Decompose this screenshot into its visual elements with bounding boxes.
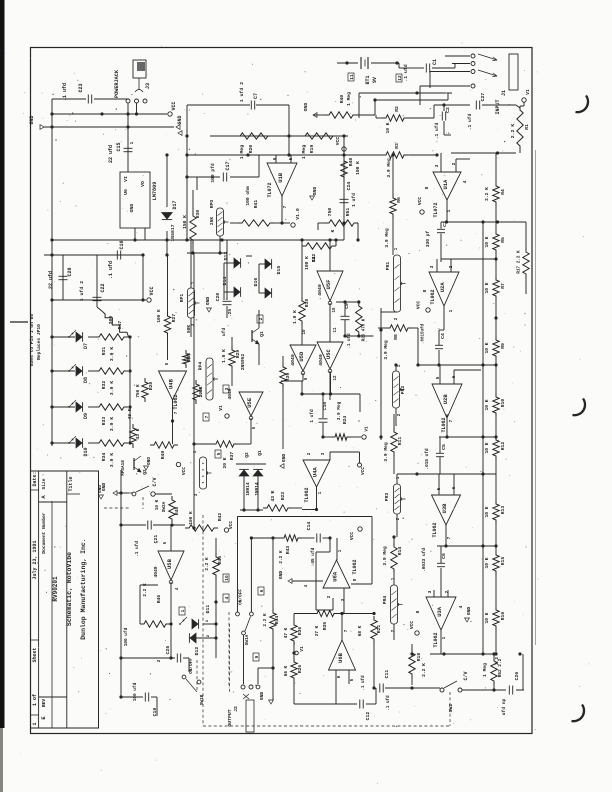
svg-text:U4A: U4A — [312, 467, 319, 478]
svg-text:C26: C26 — [67, 267, 73, 276]
svg-text:MPSA18: MPSA18 — [121, 460, 126, 476]
svg-text:C5: C5 — [441, 444, 447, 450]
svg-text:VCC: VCC — [416, 301, 422, 310]
svg-text:14: 14 — [313, 256, 317, 262]
svg-text:.1 ufd: .1 ufd — [108, 261, 114, 279]
svg-text:Q1: Q1 — [259, 331, 265, 337]
svg-text:C14: C14 — [306, 522, 312, 531]
svg-text:GND: GND — [281, 454, 287, 463]
svg-text:3: 3 — [427, 590, 433, 593]
svg-text:C2: C2 — [445, 107, 451, 113]
svg-text:8: 8 — [422, 289, 428, 292]
svg-text:SW1A: SW1A — [245, 634, 250, 645]
svg-text:Title: Title — [68, 476, 74, 491]
svg-text:R10: R10 — [500, 399, 506, 408]
svg-text:SW2A: SW2A — [162, 501, 167, 512]
svg-text:10: 10 — [224, 575, 230, 581]
svg-text:.1 ufd: .1 ufd — [347, 333, 352, 349]
svg-text:.1 ufd: .1 ufd — [403, 64, 409, 81]
svg-text:TL062: TL062 — [304, 487, 310, 502]
svg-text:750: 750 — [327, 208, 333, 217]
svg-text:7: 7 — [448, 419, 454, 422]
svg-text:47 K: 47 K — [284, 627, 289, 638]
svg-text:R36: R36 — [297, 627, 303, 636]
svg-text:3.9 Meg: 3.9 Meg — [384, 228, 390, 248]
svg-text:5: 5 — [216, 452, 222, 455]
svg-text:750 K: 750 K — [136, 384, 141, 398]
svg-text:RP3: RP3 — [209, 200, 215, 209]
svg-text:100K: 100K — [199, 386, 204, 397]
svg-text:GND: GND — [129, 204, 135, 213]
svg-text:.015 ufd: .015 ufd — [425, 448, 430, 469]
svg-text:R38: R38 — [304, 299, 310, 308]
svg-text:Q1: Q1 — [257, 450, 263, 456]
svg-text:3: 3 — [434, 164, 440, 167]
svg-text:C4: C4 — [440, 333, 446, 339]
svg-text:R15: R15 — [500, 557, 506, 566]
svg-text:2.2 K: 2.2 K — [421, 663, 427, 677]
svg-text:R5: R5 — [500, 237, 506, 243]
svg-text:.1 ufd: .1 ufd — [386, 695, 391, 711]
svg-text:C1: C1 — [432, 59, 438, 65]
svg-text:R44: R44 — [274, 616, 280, 625]
svg-text:R33: R33 — [101, 417, 107, 426]
svg-text:10 K: 10 K — [484, 612, 490, 623]
svg-text:100 K: 100 K — [304, 256, 310, 270]
svg-text:12: 12 — [397, 75, 403, 81]
svg-text:V1.0: V1.0 — [295, 208, 301, 220]
svg-text:U2A: U2A — [439, 282, 446, 293]
svg-text:C11: C11 — [384, 670, 390, 679]
svg-text:7: 7 — [204, 415, 210, 418]
svg-text:BT1: BT1 — [365, 75, 371, 84]
svg-text:R48: R48 — [348, 158, 354, 167]
svg-text:1: 1 — [180, 609, 186, 612]
svg-text:11: 11 — [334, 327, 338, 333]
svg-text:R43: R43 — [285, 546, 291, 555]
svg-text:U5B: U5B — [166, 558, 173, 569]
svg-text:.1 ufd: .1 ufd — [135, 541, 140, 557]
svg-text:VCC: VCC — [417, 197, 423, 206]
svg-text:GND: GND — [466, 607, 472, 616]
svg-text:R1: R1 — [524, 124, 530, 130]
svg-text:R13: R13 — [500, 506, 506, 515]
svg-text:1 Meg: 1 Meg — [301, 145, 307, 160]
svg-text:PR1: PR1 — [385, 262, 391, 271]
svg-text:July 23, 1991: July 23, 1991 — [32, 540, 38, 579]
svg-text:1N914: 1N914 — [255, 482, 260, 496]
svg-text:PR3: PR3 — [384, 493, 390, 502]
svg-text:1 ufd: 1 ufd — [351, 193, 357, 207]
svg-text:R3: R3 — [394, 143, 400, 149]
svg-text:100 K: 100 K — [189, 511, 194, 525]
svg-text:10 K: 10 K — [484, 506, 490, 517]
svg-text:R47: R47 — [117, 321, 123, 330]
svg-text:R17 2.2 K: R17 2.2 K — [517, 250, 522, 274]
svg-text:43 K: 43 K — [135, 428, 141, 439]
svg-text:1: 1 — [32, 722, 38, 725]
svg-text:2: 2 — [451, 162, 457, 165]
svg-text:.0015ufd: .0015ufd — [421, 323, 426, 344]
svg-text:Sheet: Sheet — [32, 647, 38, 662]
svg-text:D7: D7 — [83, 343, 89, 349]
svg-text:Replaces JP10: Replaces JP10 — [36, 324, 42, 360]
svg-text:R48: R48 — [174, 507, 180, 516]
svg-text:25K: 25K — [209, 217, 215, 226]
svg-text:4049: 4049 — [227, 388, 233, 399]
svg-text:3.9 K: 3.9 K — [109, 417, 115, 432]
svg-text:D8: D8 — [83, 377, 89, 383]
svg-text:C16: C16 — [119, 240, 125, 249]
svg-text:R16: R16 — [500, 612, 506, 621]
svg-text:R50: R50 — [186, 353, 192, 362]
svg-text:C27: C27 — [480, 93, 486, 102]
svg-text:1 ufd: 1 ufd — [310, 409, 315, 423]
svg-text:3.9 Meg: 3.9 Meg — [383, 340, 389, 360]
svg-text:SW2: SW2 — [448, 704, 454, 713]
svg-text:D17: D17 — [172, 200, 178, 209]
svg-text:VCC: VCC — [149, 286, 155, 295]
svg-text:C22: C22 — [100, 283, 106, 292]
svg-text:12: 12 — [334, 375, 338, 381]
svg-text:10: 10 — [303, 329, 307, 335]
svg-text:U2B: U2B — [442, 394, 449, 405]
svg-text:Q2: Q2 — [244, 452, 250, 458]
svg-text:VI: VI — [123, 176, 129, 182]
svg-text:1 Meg: 1 Meg — [239, 145, 245, 160]
svg-text:Dunlop Manufacturing, Inc.: Dunlop Manufacturing, Inc. — [80, 538, 87, 639]
svg-text:10 K: 10 K — [484, 342, 490, 353]
svg-text:R2: R2 — [394, 106, 400, 112]
svg-text:10 K: 10 K — [484, 442, 490, 453]
svg-text:.1 ufd: .1 ufd — [434, 122, 440, 139]
svg-text:3.9 K: 3.9 K — [109, 347, 115, 362]
svg-text:GND: GND — [303, 103, 309, 112]
svg-text:R46: R46 — [156, 595, 162, 604]
svg-text:VCC: VCC — [228, 521, 234, 530]
svg-text:.45 ufd: .45 ufd — [311, 547, 316, 566]
svg-text:10 K: 10 K — [385, 122, 391, 133]
svg-text:R34: R34 — [101, 453, 107, 462]
svg-text:8: 8 — [424, 186, 430, 189]
svg-text:4049: 4049 — [290, 354, 296, 366]
svg-text:C/V: C/V — [463, 671, 469, 680]
svg-text:ufd np: ufd np — [501, 698, 507, 715]
svg-text:10 K: 10 K — [484, 282, 490, 293]
svg-text:Q2: Q2 — [142, 469, 148, 475]
svg-text:ON/OFF: ON/OFF — [189, 658, 194, 674]
svg-text:22 ufd: 22 ufd — [108, 145, 114, 163]
svg-text:R42: R42 — [217, 513, 223, 522]
svg-text:J1: J1 — [501, 90, 507, 96]
svg-text:R30: R30 — [195, 210, 201, 219]
svg-text:GND: GND — [147, 457, 152, 465]
svg-text:C7: C7 — [253, 93, 259, 99]
svg-text:7: 7 — [446, 536, 452, 539]
svg-text:1: 1 — [448, 309, 454, 312]
svg-text:TL062: TL062 — [432, 522, 438, 537]
svg-text:1.0 K: 1.0 K — [221, 349, 227, 363]
svg-text:VCC: VCC — [335, 137, 341, 146]
svg-text:1.0 K: 1.0 K — [292, 310, 298, 324]
svg-text:R7: R7 — [500, 283, 506, 289]
svg-text:10 K: 10 K — [484, 399, 490, 410]
svg-text:9: 9 — [254, 655, 260, 658]
svg-text:R8: R8 — [393, 334, 399, 340]
svg-text:U3B: U3B — [441, 503, 448, 514]
svg-text:R12: R12 — [500, 442, 506, 451]
svg-text:C/V: C/V — [152, 477, 158, 486]
svg-text:20 K: 20 K — [222, 457, 228, 468]
svg-text:1: 1 — [129, 141, 135, 144]
svg-text:R49: R49 — [160, 451, 166, 460]
svg-text:R37: R37 — [229, 452, 235, 461]
svg-text:R40: R40 — [339, 95, 345, 104]
svg-text:J3: J3 — [145, 83, 151, 89]
svg-text:C25: C25 — [165, 646, 171, 655]
svg-text:100 ufd: 100 ufd — [124, 627, 129, 646]
svg-text:R19: R19 — [309, 145, 315, 154]
svg-text:10 K: 10 K — [484, 236, 490, 247]
svg-text:VCC: VCC — [349, 532, 355, 541]
svg-text:Document Number: Document Number — [41, 512, 47, 554]
svg-text:PR4: PR4 — [382, 596, 388, 605]
svg-text:R39: R39 — [285, 373, 291, 382]
svg-text:4: 4 — [458, 605, 464, 608]
svg-text:RP4: RP4 — [198, 362, 204, 371]
svg-text:10 K: 10 K — [155, 499, 160, 510]
svg-text:LM7809: LM7809 — [152, 182, 158, 201]
svg-text:R28: R28 — [148, 382, 154, 391]
svg-text:GND: GND — [29, 115, 35, 124]
svg-text:8: 8 — [415, 610, 421, 613]
svg-text:TL062: TL062 — [352, 559, 358, 574]
svg-text:TL062: TL062 — [430, 289, 436, 304]
svg-text:Goes to Pin 1 on U5: Goes to Pin 1 on U5 — [29, 314, 35, 367]
svg-text:1 Meg: 1 Meg — [346, 92, 352, 106]
svg-text:1 of: 1 of — [32, 694, 38, 706]
svg-text:4049: 4049 — [153, 566, 159, 577]
svg-text:U5D: U5D — [298, 351, 305, 362]
svg-text:R18: R18 — [416, 653, 422, 662]
svg-text:Date:: Date: — [32, 471, 38, 486]
svg-text:R26: R26 — [297, 665, 303, 674]
svg-text:C20: C20 — [215, 293, 221, 302]
svg-text:2.2: 2.2 — [495, 657, 500, 665]
svg-text:U5E: U5E — [246, 397, 253, 408]
svg-text:R29: R29 — [235, 350, 241, 359]
svg-text:U5C: U5C — [325, 349, 332, 360]
svg-text:2: 2 — [444, 590, 450, 593]
svg-text:GND: GND — [98, 485, 103, 493]
svg-text:GND: GND — [259, 692, 265, 701]
svg-text:3: 3 — [429, 265, 435, 268]
svg-text:3.9 K: 3.9 K — [109, 381, 115, 396]
svg-text:R20: R20 — [248, 145, 254, 154]
svg-text:R14: R14 — [397, 547, 403, 556]
svg-text:U6: U6 — [123, 189, 129, 195]
svg-text:C17: C17 — [225, 161, 231, 170]
svg-text:3.9 K: 3.9 K — [109, 453, 115, 468]
svg-text:1N5817: 1N5817 — [170, 224, 176, 241]
svg-text:R27: R27 — [171, 314, 177, 323]
svg-text:R6: R6 — [396, 197, 402, 203]
svg-text:1: 1 — [441, 636, 447, 639]
svg-text:SW1B: SW1B — [200, 694, 205, 705]
svg-text:R23: R23 — [280, 492, 286, 501]
svg-text:VO: VO — [140, 181, 146, 187]
svg-text:ON/OFF: ON/OFF — [239, 589, 244, 605]
svg-text:2.2 K: 2.2 K — [484, 187, 490, 201]
svg-text:330 pf: 330 pf — [425, 230, 431, 247]
svg-text:REV: REV — [41, 699, 47, 708]
svg-text:68 K: 68 K — [358, 625, 363, 636]
svg-text:6: 6 — [272, 157, 278, 160]
svg-text:ufd: ufd — [221, 328, 227, 337]
svg-text:V1: V1 — [300, 646, 305, 652]
svg-text:C24: C24 — [346, 182, 352, 191]
svg-text:D15: D15 — [276, 266, 282, 275]
svg-text:100 K: 100 K — [157, 309, 162, 323]
svg-text:RP1: RP1 — [179, 294, 185, 303]
svg-text:V1: V1 — [525, 89, 531, 95]
svg-text:2.2 K: 2.2 K — [205, 557, 210, 571]
svg-text:V1: V1 — [365, 426, 370, 432]
svg-text:R11: R11 — [397, 437, 403, 446]
svg-text:C23: C23 — [78, 83, 84, 92]
svg-text:300: 300 — [108, 316, 114, 325]
svg-text:C12: C12 — [365, 712, 371, 721]
svg-text:10 K: 10 K — [484, 557, 490, 568]
svg-text:C26: C26 — [514, 672, 520, 681]
svg-text:D11: D11 — [205, 605, 211, 614]
svg-text:2.2 K: 2.2 K — [263, 613, 268, 627]
svg-text:11: 11 — [349, 74, 355, 80]
svg-text:15: 15 — [333, 307, 337, 313]
svg-text:6: 6 — [259, 589, 265, 592]
svg-text:R45: R45 — [217, 556, 223, 565]
svg-text:.1 ufd: .1 ufd — [62, 83, 68, 101]
svg-text:R51: R51 — [345, 208, 351, 217]
svg-text:4: 4 — [462, 180, 468, 183]
svg-text:GND: GND — [205, 297, 211, 306]
svg-text:100 pfd: 100 pfd — [210, 163, 216, 183]
svg-text:150 K: 150 K — [182, 215, 188, 229]
svg-text:9V: 9V — [372, 77, 378, 83]
svg-text:1 ufd 2: 1 ufd 2 — [79, 281, 85, 301]
svg-text:VCC: VCC — [181, 467, 187, 476]
svg-text:100 ohm: 100 ohm — [245, 186, 251, 206]
svg-text:V1: V1 — [218, 405, 224, 411]
svg-text:D13: D13 — [223, 252, 229, 261]
svg-text:D12: D12 — [194, 647, 200, 656]
svg-text:VCC: VCC — [361, 467, 366, 475]
svg-text:U5F: U5F — [325, 280, 332, 290]
svg-text:2.2 K: 2.2 K — [279, 550, 284, 564]
svg-text:PR2: PR2 — [400, 386, 406, 395]
svg-text:R35: R35 — [322, 622, 328, 631]
svg-text:.25: .25 — [227, 309, 233, 318]
svg-text:INPUT: INPUT — [495, 99, 501, 114]
svg-text:R24: R24 — [342, 416, 348, 425]
svg-text:K: K — [330, 229, 336, 232]
svg-text:R25 470 K: R25 470 K — [363, 318, 367, 341]
svg-text:4049: 4049 — [318, 354, 324, 366]
svg-text:C15: C15 — [116, 142, 122, 151]
svg-text:VCC: VCC — [171, 101, 177, 110]
svg-text:22 ufd: 22 ufd — [48, 271, 54, 289]
svg-text:TL062: TL062 — [441, 417, 447, 432]
svg-text:3.9 Meg: 3.9 Meg — [337, 401, 342, 420]
svg-text:R32: R32 — [101, 381, 107, 390]
svg-text:J2: J2 — [233, 706, 239, 712]
svg-text:VCC: VCC — [409, 621, 415, 630]
svg-text:66 K: 66 K — [284, 665, 289, 676]
svg-text:4: 4 — [224, 596, 230, 599]
svg-text:43 K: 43 K — [270, 490, 276, 501]
svg-text:.0033 ufd: .0033 ufd — [422, 548, 427, 572]
svg-text:POWERJACK: POWERJACK — [114, 69, 120, 98]
svg-text:3.9 Meg: 3.9 Meg — [382, 546, 388, 566]
svg-text:GND: GND — [177, 115, 183, 124]
svg-text:TL072: TL072 — [433, 202, 439, 217]
svg-text:3.9 Meg: 3.9 Meg — [383, 442, 389, 462]
svg-text:TL072: TL072 — [267, 182, 273, 197]
svg-text:D9: D9 — [83, 413, 89, 419]
svg-text:R4: R4 — [500, 189, 506, 195]
svg-text:7: 7 — [282, 205, 288, 208]
svg-text:Size: Size — [41, 478, 47, 489]
svg-text:.1 ufd: .1 ufd — [361, 675, 366, 691]
svg-text:GND: GND — [278, 571, 284, 580]
svg-text:U4B: U4B — [168, 378, 175, 389]
svg-text:U1A: U1A — [442, 179, 449, 190]
svg-text:1 ufd 2: 1 ufd 2 — [239, 82, 245, 102]
svg-text:1 Meg: 1 Meg — [482, 663, 488, 677]
svg-text:RV90201: RV90201 — [52, 576, 59, 602]
svg-text:4049: 4049 — [317, 284, 323, 296]
svg-text:TL062: TL062 — [173, 394, 179, 409]
svg-text:3.9 Meg: 3.9 Meg — [386, 158, 392, 178]
svg-text:27 K: 27 K — [315, 625, 320, 636]
svg-text:100 ufd: 100 ufd — [133, 682, 138, 701]
svg-text:TL062: TL062 — [433, 632, 439, 647]
svg-text:2.2 K: 2.2 K — [510, 124, 516, 139]
svg-text:GND: GND — [312, 187, 318, 196]
svg-text:R41: R41 — [253, 200, 259, 209]
svg-text:OUTPUT: OUTPUT — [227, 709, 233, 726]
svg-text:100 K: 100 K — [355, 161, 361, 175]
svg-text:D16: D16 — [253, 278, 259, 287]
svg-text:U6B: U6B — [337, 652, 344, 663]
svg-text:C6: C6 — [441, 553, 447, 559]
svg-text:1N914: 1N914 — [246, 482, 251, 496]
svg-text:R31: R31 — [101, 347, 107, 356]
svg-text:U1B: U1B — [277, 172, 284, 183]
svg-text:Schematic, RotoVibe: Schematic, RotoVibe — [66, 552, 73, 626]
svg-text:U3A: U3A — [436, 606, 443, 617]
svg-text:R9: R9 — [500, 343, 506, 349]
svg-text:.1 ufd: .1 ufd — [467, 113, 473, 130]
svg-text:R21: R21 — [376, 625, 382, 634]
